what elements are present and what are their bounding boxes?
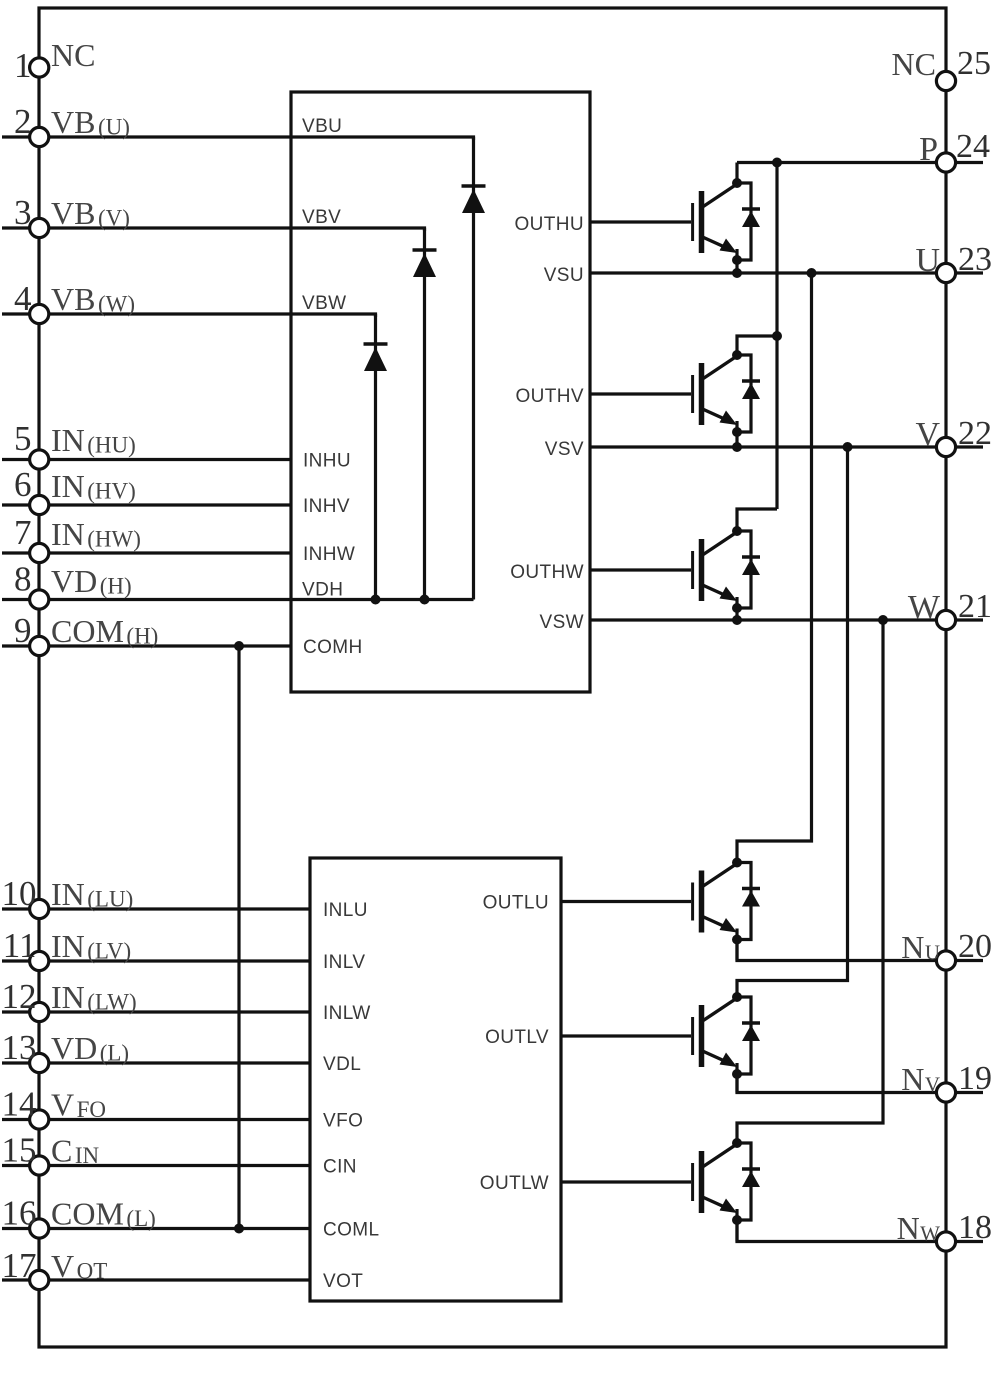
svg-text:13: 13	[2, 1028, 37, 1067]
node Q6 low-side W collector junction	[732, 1138, 742, 1148]
pin terminal pin 12	[30, 1002, 49, 1021]
diode DQ3 (freewheel)	[737, 531, 760, 608]
wire pin8 VD(H) net	[2, 598, 474, 601]
svg-text:22: 22	[958, 415, 992, 452]
svg-text:7: 7	[14, 513, 32, 552]
pin terminal pin 23	[936, 263, 955, 282]
wire pin11 IN(LV) net	[2, 959, 310, 962]
svg-text:12: 12	[2, 977, 37, 1016]
pin terminal pin 13	[30, 1053, 49, 1072]
node VSU junction to U-phase drop	[807, 268, 817, 278]
node COML junction	[234, 1224, 244, 1234]
wire pin3 VB(V) net to bootstrap diode D2	[2, 228, 425, 231]
svg-text:25: 25	[957, 45, 991, 82]
node Q2 high-side V diode return junction	[732, 427, 742, 437]
svg-text:V: V	[915, 416, 940, 453]
wire Nu net to pin20	[737, 940, 983, 961]
svg-text:INHW: INHW	[303, 544, 355, 565]
wire OUTLU gate wire	[561, 900, 691, 903]
wire VSU net U phase	[590, 271, 983, 274]
svg-text:VSU: VSU	[544, 265, 584, 286]
wire Nv net to pin19	[737, 1074, 983, 1093]
svg-text:OUTHW: OUTHW	[510, 562, 584, 583]
node COMH junction	[234, 641, 244, 651]
svg-text:2: 2	[14, 102, 32, 141]
svg-text:INHV: INHV	[303, 496, 350, 517]
wire OUTHW gate wire	[590, 568, 691, 571]
svg-text:15: 15	[2, 1131, 37, 1170]
wire Q2 collector step from P branch	[737, 336, 777, 355]
wire U phase vertical to Q4 collector	[737, 273, 812, 863]
wire pin15 CIN net	[2, 1164, 310, 1167]
pin terminal pin 19	[936, 1083, 955, 1102]
wire Nw net to pin18	[737, 1220, 983, 1242]
svg-text:INLV: INLV	[323, 952, 365, 973]
svg-text:VBV: VBV	[302, 207, 341, 228]
svg-text:OUTLV: OUTLV	[485, 1027, 549, 1048]
node Q4 low-side U collector junction	[732, 858, 742, 868]
svg-text:19: 19	[958, 1060, 992, 1097]
low-side driver IC block U2	[310, 858, 561, 1301]
wire pin12 IN(LW) net	[2, 1010, 310, 1013]
pin terminal pin 16	[30, 1219, 49, 1238]
diode DQ5 (freewheel)	[737, 997, 760, 1074]
svg-text:COMH: COMH	[303, 637, 363, 658]
node Q1 high-side U collector junction	[732, 178, 742, 188]
pin terminal pin 7	[30, 543, 49, 562]
svg-text:OUTLU: OUTLU	[483, 893, 549, 914]
node VDH junction at D3	[371, 595, 381, 605]
diode D2 (bootstrap)	[413, 228, 437, 600]
node VSW junction to W-phase drop	[878, 615, 888, 625]
node VDH junction at D2	[420, 595, 430, 605]
wire pin2 VB(U) net to bootstrap diode D1	[2, 137, 474, 140]
svg-text:INLW: INLW	[323, 1003, 371, 1024]
svg-text:9: 9	[14, 611, 32, 650]
svg-text:23: 23	[958, 241, 992, 278]
wire COM(H) to COM(L) vertical link	[237, 646, 240, 1229]
svg-text:VDL: VDL	[323, 1054, 361, 1075]
svg-text:VSW: VSW	[540, 612, 584, 633]
svg-text:COML: COML	[323, 1220, 380, 1241]
node P rail junction at Q1 collector column	[772, 158, 782, 168]
pin terminal pin 3	[30, 218, 49, 237]
wire pin14 VFO net	[2, 1118, 310, 1121]
svg-text:10: 10	[2, 874, 37, 913]
pin terminal pin 24	[936, 153, 955, 172]
pin terminal pin 2	[30, 127, 49, 146]
svg-text:P: P	[919, 131, 938, 168]
svg-text:NC: NC	[51, 37, 95, 73]
svg-text:VOT: VOT	[323, 1271, 363, 1292]
pin terminal pin 14	[30, 1110, 49, 1129]
transistor Q6 low-side W (IGBT)	[693, 1143, 737, 1242]
pin terminal pin 11	[30, 951, 49, 970]
node Q1 high-side U diode return junction	[732, 255, 742, 265]
wire pin6 IN(HV) net	[2, 503, 291, 506]
svg-text:VSV: VSV	[545, 439, 584, 460]
high-side driver IC block U1	[291, 92, 590, 692]
wire pin17 VOT net	[2, 1278, 310, 1281]
pin terminal pin 5	[30, 450, 49, 469]
diode DQ4 (freewheel)	[737, 863, 760, 940]
svg-text:20: 20	[958, 928, 992, 965]
wire V phase vertical to Q5 collector	[737, 447, 848, 997]
svg-text:OUTHV: OUTHV	[516, 386, 585, 407]
pin terminal pin 25	[936, 71, 955, 90]
svg-text:3: 3	[14, 193, 32, 232]
wire pin4 VB(W) net to bootstrap diode D3	[2, 314, 376, 317]
node VSV junction emitter Q2	[732, 442, 742, 452]
svg-text:4: 4	[14, 279, 32, 318]
wire OUTLV gate wire	[561, 1034, 691, 1037]
node VSW junction emitter Q3	[732, 615, 742, 625]
wire pin5 IN(HU) net	[2, 458, 291, 461]
node Q3 high-side W diode return junction	[732, 603, 742, 613]
wire OUTHV gate wire	[590, 392, 691, 395]
wire VSW net W phase	[590, 618, 983, 621]
wire pin13 VD(L) net	[2, 1061, 310, 1064]
wire VSV net V phase	[590, 445, 983, 448]
svg-text:U: U	[915, 242, 940, 279]
transistor Q5 low-side V (IGBT)	[693, 997, 737, 1093]
wire W phase vertical to Q6 collector	[737, 620, 883, 1143]
svg-text:W: W	[908, 589, 941, 626]
pin terminal pin 10	[30, 899, 49, 918]
diode DQ2 (freewheel)	[737, 355, 760, 432]
wire Q3 collector step from P branch	[737, 509, 777, 531]
svg-text:VDH: VDH	[302, 580, 343, 601]
diode D1 (bootstrap)	[462, 137, 486, 600]
svg-text:OUTLW: OUTLW	[480, 1173, 549, 1194]
svg-text:NC: NC	[892, 46, 936, 82]
svg-text:14: 14	[2, 1085, 37, 1124]
diode DQ6 (freewheel)	[737, 1143, 760, 1220]
pin terminal pin 20	[936, 951, 955, 970]
wire pin7 IN(HW) net	[2, 551, 291, 554]
wire pin10 IN(LU) net	[2, 907, 310, 910]
svg-text:24: 24	[956, 128, 990, 165]
svg-text:21: 21	[958, 588, 992, 625]
transistor Q3 high-side W (IGBT)	[693, 531, 737, 620]
svg-text:1: 1	[14, 46, 32, 85]
pin terminal pin 4	[30, 304, 49, 323]
node VSU junction emitter Q1	[732, 268, 742, 278]
svg-text:CIN: CIN	[323, 1157, 357, 1178]
svg-text:VBU: VBU	[302, 116, 342, 137]
node P branch junction at Q2 step	[772, 331, 782, 341]
svg-text:6: 6	[14, 465, 32, 504]
node Q3 high-side W collector junction	[732, 526, 742, 536]
pin terminal pin 18	[936, 1232, 955, 1251]
diode DQ1 (freewheel)	[737, 183, 760, 260]
pin terminal pin 15	[30, 1156, 49, 1175]
transistor Q2 high-side V (IGBT)	[693, 355, 737, 447]
wire OUTLW gate wire	[561, 1180, 691, 1183]
node Q6 low-side W diode return junction	[732, 1215, 742, 1225]
pin terminal pin 8	[30, 590, 49, 609]
svg-text:VFO: VFO	[323, 1111, 363, 1132]
svg-text:16: 16	[2, 1194, 37, 1233]
wire OUTHU gate wire	[590, 220, 691, 223]
diode D3 (bootstrap)	[364, 314, 388, 600]
wire P rail branch vertical to Q2/Q3 collectors	[775, 163, 778, 510]
svg-text:17: 17	[2, 1246, 37, 1285]
svg-text:8: 8	[14, 560, 32, 599]
wire pin16 COM(L) net	[2, 1227, 310, 1230]
pin terminal pin 17	[30, 1270, 49, 1289]
svg-text:5: 5	[14, 419, 32, 458]
svg-text:INLU: INLU	[323, 900, 368, 921]
svg-text:18: 18	[958, 1209, 992, 1246]
wire pin9 COM(H) net	[2, 644, 291, 647]
svg-text:11: 11	[3, 926, 37, 965]
svg-text:VBW: VBW	[302, 293, 346, 314]
pin terminal pin 6	[30, 495, 49, 514]
node Q2 high-side V collector junction	[732, 350, 742, 360]
pin terminal pin 21	[936, 610, 955, 629]
pin terminal pin 1	[30, 58, 49, 77]
node VSV junction to V-phase drop	[843, 442, 853, 452]
transistor Q4 low-side U (IGBT)	[693, 863, 737, 961]
svg-text:INHU: INHU	[303, 451, 351, 472]
node Q5 low-side V collector junction	[732, 992, 742, 1002]
node Q5 low-side V diode return junction	[732, 1069, 742, 1079]
transistor Q1 high-side U (IGBT)	[693, 163, 737, 274]
svg-text:OUTHU: OUTHU	[514, 214, 584, 235]
pin terminal pin 22	[936, 437, 955, 456]
node Q4 low-side U diode return junction	[732, 935, 742, 945]
wire P rail from Q1 collector to pin24	[737, 161, 983, 164]
pin terminal pin 9	[30, 636, 49, 655]
